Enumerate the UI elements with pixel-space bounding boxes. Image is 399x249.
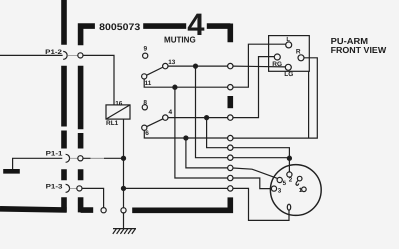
shield pin (row 157.7) bbox=[228, 155, 233, 160]
shield border: bottom-right corner and bar bbox=[132, 197, 230, 210]
svg-text:8005073: 8005073 bbox=[99, 22, 140, 33]
wire: contact 4 to shield pin bbox=[168, 117, 228, 119]
switch S1 contact 13 bbox=[163, 63, 168, 68]
svg-text:2: 2 bbox=[289, 176, 293, 183]
wire: P1-3 drop to shield pin bbox=[82, 188, 104, 207]
DIN pin 3 bbox=[271, 186, 276, 191]
DIN pin 5 bbox=[277, 177, 282, 182]
svg-text:6: 6 bbox=[145, 130, 149, 137]
connector P1-2 socket pin bbox=[78, 53, 83, 58]
shield pin (4) bbox=[228, 115, 233, 120]
junction on wire 13 bbox=[193, 64, 197, 68]
junction on wire 11 bbox=[173, 85, 177, 89]
svg-text:RG: RG bbox=[272, 61, 282, 68]
svg-text:4: 4 bbox=[169, 109, 173, 116]
svg-text:9: 9 bbox=[144, 46, 148, 53]
wire: ground bus to ground symbol bbox=[123, 213, 125, 229]
connector P1-2 plug arc bbox=[63, 51, 67, 59]
junction: ground bus at P1-3 row bbox=[121, 186, 125, 190]
switch S1 arm bbox=[147, 67, 163, 75]
pickup head shell U1 bbox=[269, 36, 310, 72]
wire: pin 4 row to pickup RG bbox=[233, 57, 274, 118]
connector P1-3 plug arc bbox=[66, 184, 70, 192]
connector P1-3 socket pin bbox=[77, 186, 82, 191]
svg-text:RL1: RL1 bbox=[106, 120, 119, 127]
wire: row 167.9 to DIN pin 5 bbox=[233, 168, 278, 178]
wire: row 178 stepping down to DIN pin 3 bbox=[233, 178, 272, 189]
wire: branch 6 down to row 167.9 bbox=[186, 138, 228, 168]
DIN connector J1 body bbox=[270, 165, 321, 216]
wire: row 188.4 around to DIN bottom pin bbox=[233, 188, 289, 220]
wire: pin 13 row to pickup LG bbox=[233, 65, 286, 68]
svg-text:L: L bbox=[286, 36, 290, 43]
svg-text:16: 16 bbox=[115, 100, 123, 107]
pickup pin RG bbox=[274, 54, 280, 60]
shield border: left outer dashed line bbox=[61, 0, 67, 212]
svg-text:P1-2: P1-2 bbox=[45, 49, 62, 56]
shield border: bottom-left horizontal bar bbox=[0, 209, 67, 210]
svg-text:P1-1: P1-1 bbox=[46, 151, 63, 158]
shield border: right dashed segment bbox=[228, 96, 234, 108]
svg-text:P1-3: P1-3 bbox=[46, 183, 63, 190]
wire: contact 13 to shield pin bbox=[168, 65, 228, 67]
shield pass-through pin (ground bus) bbox=[121, 208, 126, 213]
shield pin (13) bbox=[228, 63, 233, 68]
wire: branch 11 down to row 178 bbox=[175, 87, 228, 178]
shield border: left inner dashed line with top corner bbox=[81, 26, 95, 212]
connector P1-1 socket pin bbox=[78, 156, 83, 161]
pickup pin LG bbox=[285, 64, 291, 70]
junction on wire 6 bbox=[184, 136, 188, 140]
svg-text:4: 4 bbox=[187, 7, 205, 42]
wire: junction down to DIN pin 2 bbox=[288, 158, 290, 172]
shield pin (11) bbox=[228, 85, 233, 90]
relay RL1 bbox=[106, 105, 130, 119]
switch S1 contact 9 (open) bbox=[143, 53, 148, 58]
ground bbox=[113, 229, 136, 234]
switch S1 pivot contact 11 bbox=[142, 74, 147, 79]
wire: relay RL1 lead down to ground bus bbox=[123, 119, 125, 208]
switch S2 contact 4 bbox=[163, 115, 168, 120]
wire: row 138 to pickup R bbox=[233, 58, 317, 138]
junction on wire 4 bbox=[205, 116, 209, 120]
shield pass-through pin (P1-3) bbox=[101, 208, 106, 213]
switch S2 contact 8 (open) bbox=[142, 105, 147, 110]
svg-text:3: 3 bbox=[278, 187, 282, 194]
shield pin (row 178) bbox=[228, 175, 233, 180]
wire: row 147.7 to DIN pin 2 vertical bbox=[233, 148, 290, 159]
wire: contact 6 to shield pin row bbox=[144, 130, 227, 138]
wire: row 157.7 joining DIN pin 2 vertical bbox=[233, 157, 290, 159]
shield pin (6 / R) bbox=[228, 135, 233, 140]
wire: P1-1 to junction bbox=[83, 157, 124, 159]
svg-text:LG: LG bbox=[284, 71, 293, 78]
DIN pin 1 (hooked) bbox=[297, 176, 302, 181]
wire: contact 11 to shield pin row bbox=[144, 79, 228, 87]
svg-text:FRONT VIEW: FRONT VIEW bbox=[331, 45, 387, 55]
svg-text:1: 1 bbox=[299, 187, 303, 194]
svg-text:11: 11 bbox=[145, 80, 152, 87]
junction: ground bus at P1-1 bbox=[121, 156, 125, 160]
wire: branch 13 down to row 158 bbox=[196, 66, 228, 158]
chassis bar bbox=[3, 169, 20, 174]
pickup pin R bbox=[298, 55, 304, 61]
svg-text:8: 8 bbox=[143, 99, 147, 106]
svg-text:R: R bbox=[296, 48, 301, 55]
DIN keyway slot bbox=[287, 204, 290, 210]
wire: pickup box corner drop bbox=[308, 71, 310, 138]
wire: P1-1 left lead to chassis bbox=[13, 158, 63, 169]
svg-text:13: 13 bbox=[168, 59, 176, 66]
wire: P1-2 to relay RL1 bbox=[83, 55, 114, 105]
svg-text:5: 5 bbox=[283, 180, 287, 187]
switch S2 arm bbox=[147, 119, 163, 127]
pickup pin L bbox=[286, 42, 292, 48]
junction: DIN pin 2 feed bbox=[287, 156, 291, 160]
DIN pin 10 bbox=[302, 187, 307, 192]
DIN pin 2 bbox=[287, 172, 292, 177]
wire: P1-2 lead from left edge bbox=[0, 54, 63, 56]
switch S2 pivot contact 6 bbox=[142, 125, 147, 130]
shield pin (row 188.4) bbox=[228, 186, 233, 191]
wire: branch 4 down to row 147.7 bbox=[207, 118, 228, 148]
shield pin (row 167.9) bbox=[228, 165, 233, 170]
connector P1-1 plug arc bbox=[66, 154, 70, 162]
wire: ground bus to shield pin row 188 bbox=[124, 187, 228, 189]
wire: pin 11 row to pickup L bbox=[233, 44, 286, 87]
shield border: top dashed line with label gap and right corner bbox=[143, 24, 230, 43]
shield pin (row 147.7) bbox=[228, 145, 233, 150]
